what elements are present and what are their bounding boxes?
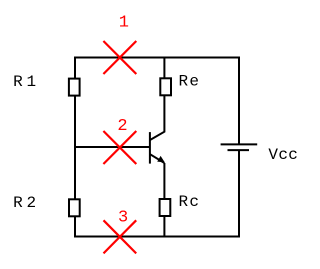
svg-text:2: 2 — [117, 117, 127, 136]
svg-text:Re: Re — [179, 73, 200, 91]
svg-text:Rc: Rc — [179, 193, 200, 211]
svg-text:3: 3 — [118, 209, 128, 228]
svg-text:Vcc: Vcc — [268, 146, 298, 164]
svg-text:1: 1 — [119, 14, 129, 33]
